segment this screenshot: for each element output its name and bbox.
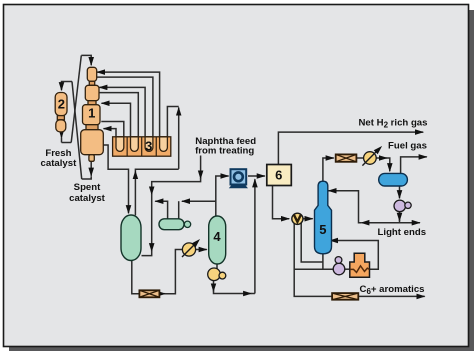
svg-text:Light ends: Light ends [378, 227, 427, 238]
svg-text:catalyst: catalyst [69, 193, 106, 204]
svg-text:Spent: Spent [74, 182, 101, 193]
svg-text:Fuel gas: Fuel gas [388, 140, 427, 151]
svg-text:3: 3 [145, 139, 152, 154]
svg-text:catalyst: catalyst [41, 158, 78, 169]
svg-text:Net H2 rich gas: Net H2 rich gas [359, 118, 428, 130]
svg-text:from treating: from treating [195, 145, 254, 156]
svg-text:4: 4 [213, 229, 221, 244]
svg-text:5: 5 [319, 222, 326, 237]
svg-text:2: 2 [58, 97, 65, 112]
svg-text:1: 1 [88, 106, 95, 121]
svg-text:6: 6 [275, 167, 282, 182]
